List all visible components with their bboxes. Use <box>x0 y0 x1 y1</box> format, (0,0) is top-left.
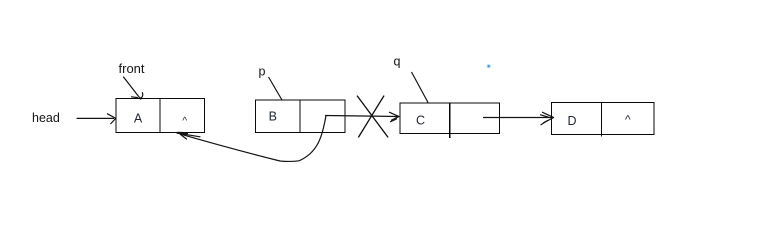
svg-text:C: C <box>416 114 425 128</box>
svg-text:front: front <box>119 61 145 76</box>
wire arrowhead into C <box>390 112 399 121</box>
svg-text:A: A <box>134 112 143 126</box>
wire front arrow <box>124 77 143 99</box>
wire p pointer line <box>269 77 283 100</box>
stray blue dot <box>487 64 491 68</box>
wire C next pointer to D <box>483 117 551 119</box>
wire front arrow tip blob <box>139 97 141 99</box>
wire head arrow <box>77 114 116 124</box>
wire arrowhead into D <box>541 112 554 125</box>
wire arrowhead into A bottom <box>178 133 201 139</box>
node A box <box>116 99 205 133</box>
wire B next pointer to C <box>325 116 398 117</box>
X cross deleted link <box>357 96 388 137</box>
node B box <box>256 100 346 133</box>
node D box <box>552 103 655 137</box>
svg-text:^: ^ <box>182 115 187 127</box>
svg-text:D: D <box>567 114 576 128</box>
wire q pointer line <box>412 72 429 103</box>
node C box <box>400 103 500 138</box>
wire curved pointer from B back to A <box>180 116 327 162</box>
svg-text:p: p <box>259 65 266 79</box>
svg-text:B: B <box>269 110 277 124</box>
svg-text:^: ^ <box>625 112 631 126</box>
svg-text:head: head <box>32 111 60 125</box>
svg-text:q: q <box>394 55 401 69</box>
